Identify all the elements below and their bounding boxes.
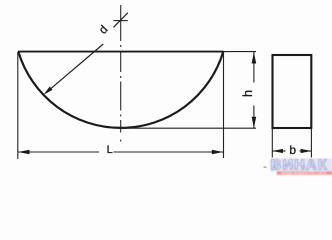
b left arrowhead — [272, 149, 283, 153]
watermark background box — [270, 158, 332, 171]
dimension line b (left part) — [272, 150, 285, 152]
L left arrowhead — [18, 150, 30, 154]
dimension line h (upper part) — [253, 52, 255, 83]
segment chord (top edge of key) — [18, 51, 224, 53]
svg-text:b: b — [289, 143, 296, 157]
center cross tick — [114, 20, 128, 22]
diameter leader line d (upper slash) — [114, 13, 128, 27]
b left extension line — [271, 128, 273, 158]
svg-text:a c o n s: a c o n s — [273, 165, 318, 171]
h top extension line — [223, 51, 256, 53]
dimension line L (right part) — [114, 151, 224, 153]
svg-text:шпонки сегментнi ГОСТ 24071: шпонки сегментнi ГОСТ 24071 — [282, 171, 327, 175]
dimension line h (lower part) — [253, 106, 255, 129]
leader arrowhead — [44, 87, 53, 95]
right extension line for L — [223, 52, 225, 158]
b right arrowhead — [301, 149, 312, 153]
b right extension line — [310, 128, 312, 158]
svg-text:L: L — [107, 144, 113, 156]
h top arrowhead — [252, 52, 257, 64]
side view rectangle (key cross-section) — [273, 55, 312, 128]
stray scan dash — [264, 166, 267, 168]
L right arrowhead — [212, 150, 224, 154]
h bottom arrowhead — [252, 117, 257, 129]
diameter leader line d (lower part to arrow) — [46, 44, 103, 92]
watermark red stripe — [277, 171, 332, 174]
left extension line for L — [17, 52, 19, 159]
svg-text:h: h — [241, 90, 255, 97]
segment arc (key profile) — [18, 52, 223, 128]
watermark — [270, 158, 332, 176]
centerline (vertical dash-dot axis of key) — [120, 5, 122, 142]
dimension line b (right part) — [300, 150, 312, 152]
h bottom extension line (tangent at arc bottom) — [121, 127, 256, 129]
dimension line L (left part) — [18, 151, 99, 153]
